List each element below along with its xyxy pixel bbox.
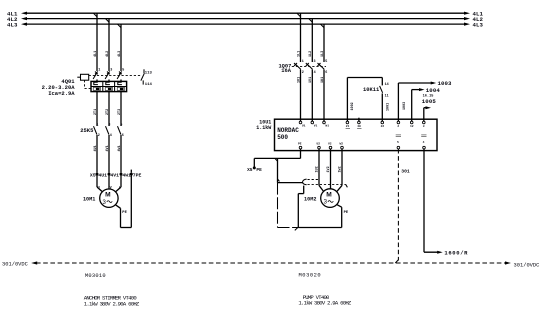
svg-text:1W2: 1W2 [339,166,343,172]
svg-text:1005: 1005 [422,98,437,105]
svg-text:1L1: 1L1 [297,51,301,57]
svg-text:4U1: 4U1 [98,173,107,179]
svg-text:5: 5 [122,68,124,72]
svg-text:U: U [98,186,100,190]
svg-text:W1: W1 [325,125,329,128]
svg-text:40: 40 [357,125,361,128]
svg-text:6: 6 [325,71,327,75]
svg-text:16A: 16A [281,68,291,74]
svg-text:5: 5 [397,141,399,144]
svg-text:U1: U1 [302,125,306,128]
svg-text:7PE: 7PE [133,173,142,179]
svg-text:1W1: 1W1 [321,77,325,83]
svg-text:4L3: 4L3 [118,51,122,57]
svg-text:1U2: 1U2 [316,166,320,172]
svg-text:PE: PE [344,211,349,215]
svg-text:3: 3 [423,125,425,128]
svg-text:11: 11 [385,95,389,99]
svg-text:2: 2 [98,134,100,138]
svg-text:4: 4 [110,134,112,138]
svg-text:M03020: M03020 [299,273,322,279]
svg-text:1004: 1004 [426,87,441,94]
svg-text:X5: X5 [247,167,253,173]
svg-text:X5: X5 [90,173,96,179]
svg-text:1.1kW: 1.1kW [256,125,271,131]
svg-text:PE: PE [298,143,302,146]
svg-text:1: 1 [96,124,98,128]
svg-text:3: 3 [110,68,112,72]
svg-text:4U1: 4U1 [94,145,98,151]
svg-text:1L2: 1L2 [309,51,313,57]
svg-text:PE: PE [256,167,262,173]
svg-text:14: 14 [385,83,389,87]
svg-text:W2: W2 [340,143,344,146]
svg-text:4: 4 [423,141,425,144]
svg-text:22: 22 [381,125,385,128]
svg-text:V2: V2 [328,143,332,146]
svg-text:M: M [105,191,111,198]
svg-text:4: 4 [314,71,316,75]
svg-text:5: 5 [325,60,327,64]
svg-text:5: 5 [120,124,122,128]
svg-text:1V2: 1V2 [327,166,331,172]
svg-text:2T1: 2T1 [94,109,98,115]
svg-text:301: 301 [401,169,410,175]
svg-text:3: 3 [314,60,316,64]
svg-text:10K11: 10K11 [363,87,379,93]
svg-text:4W1: 4W1 [122,173,131,179]
svg-text:1U1: 1U1 [297,77,301,83]
svg-text:4W1: 4W1 [118,145,122,151]
svg-text:U2: U2 [317,143,321,146]
svg-text:1003: 1003 [403,102,407,110]
svg-text:4V1: 4V1 [106,145,110,151]
svg-text:M: M [326,191,332,198]
svg-text:1: 1 [98,68,100,72]
svg-text:21: 21 [346,125,350,128]
svg-text:1L3: 1L3 [321,51,325,57]
svg-text:2T2: 2T2 [106,109,110,115]
svg-text:10M2: 10M2 [304,197,316,203]
svg-text:2: 2 [397,125,399,128]
svg-text:114: 114 [145,83,153,87]
svg-text:500: 500 [277,134,288,141]
svg-text:1.1kW 380V 2.9A 60HZ: 1.1kW 380V 2.9A 60HZ [298,299,352,306]
svg-text:4L2: 4L2 [106,51,110,57]
svg-text:301/0VDC: 301/0VDC [2,261,28,267]
svg-text:4L3: 4L3 [7,22,18,29]
svg-text:1: 1 [302,60,304,64]
svg-text:301/0VDC: 301/0VDC [514,262,540,268]
svg-text:M03010: M03010 [85,273,106,279]
svg-text:1001: 1001 [387,103,391,111]
svg-text:1V1: 1V1 [309,77,313,83]
svg-text:V1: V1 [314,125,318,128]
svg-text:113: 113 [145,72,153,76]
svg-text:4L3: 4L3 [473,22,484,29]
svg-text:3: 3 [108,124,110,128]
svg-text:1.1kW 380V 2.90A 60HZ: 1.1kW 380V 2.90A 60HZ [84,300,140,307]
svg-text:6: 6 [122,134,124,138]
svg-text:4L1: 4L1 [94,51,98,57]
svg-text:Ica=2.9A: Ica=2.9A [48,90,75,97]
svg-text:PE: PE [122,211,127,215]
svg-text:2: 2 [302,71,304,75]
svg-text:25K5: 25K5 [80,127,94,134]
svg-text:12: 12 [410,125,414,128]
svg-text:1002: 1002 [351,102,355,110]
svg-text:2T3: 2T3 [118,109,122,115]
svg-text:4V1: 4V1 [110,173,119,179]
svg-text:10M1: 10M1 [83,196,95,202]
svg-text:1600/R: 1600/R [444,250,468,257]
